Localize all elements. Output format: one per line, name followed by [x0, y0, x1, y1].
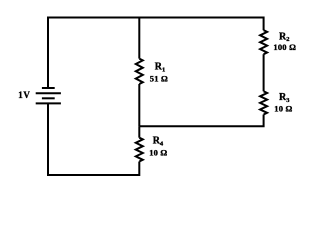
battery V1 long plate (bottom) — [36, 102, 61, 104]
resistor R3 — [260, 91, 267, 114]
svg-text:100 Ω: 100 Ω — [273, 42, 296, 52]
wire: battery top terminal up, top rail, down to R2 top — [48, 18, 264, 90]
wire: top rail T-junction down to R1 top — [138, 18, 140, 59]
resistor R4 — [136, 138, 143, 162]
battery V1 long plate — [36, 92, 61, 94]
svg-text:R1: R1 — [155, 62, 165, 74]
resistor R2 — [260, 30, 267, 54]
svg-text:R3: R3 — [279, 92, 290, 104]
wire: R4 bottom, bottom rail, up to battery bottom plate — [48, 103, 139, 175]
battery V1 short plate (top) — [42, 87, 55, 89]
wire: middle node down to R4 top — [138, 126, 140, 138]
svg-text:10 Ω: 10 Ω — [149, 148, 167, 158]
svg-text:51 Ω: 51 Ω — [150, 74, 168, 84]
wire: R2 bottom to R3 top — [263, 54, 265, 91]
wire: R1 bottom to middle node — [138, 84, 140, 126]
resistor R1 — [136, 59, 143, 84]
wire: middle horizontal rail to R3 bottom — [139, 115, 263, 127]
svg-text:1V: 1V — [18, 90, 30, 100]
svg-text:R4: R4 — [153, 136, 164, 148]
battery V1 short plate — [42, 97, 55, 99]
svg-text:10 Ω: 10 Ω — [274, 103, 292, 113]
